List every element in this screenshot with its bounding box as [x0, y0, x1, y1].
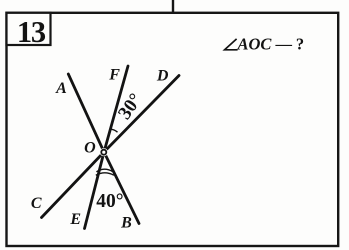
svg-text:40°: 40°: [96, 191, 123, 212]
angle symbol of question: [225, 39, 238, 50]
double arc of 40 degree angle EOB (lower): [96, 173, 114, 175]
svg-text:C: C: [31, 195, 42, 212]
vertex point O circle: [101, 150, 106, 155]
svg-text:13: 13: [17, 15, 46, 49]
ray OD: [104, 76, 179, 153]
svg-text:—: —: [274, 34, 292, 53]
svg-text:?: ?: [296, 34, 304, 53]
problem number box: [7, 13, 51, 45]
arc of 30 degree angle FOD: [110, 129, 117, 132]
ray OC: [42, 152, 105, 218]
svg-text:D: D: [156, 67, 169, 84]
double arc of 40 degree angle EOB (upper): [96, 169, 112, 172]
ray OF: [104, 66, 128, 152]
svg-text:B: B: [120, 215, 132, 232]
svg-text:O: O: [84, 139, 96, 156]
ray OA: [68, 74, 104, 152]
ray OE: [85, 152, 105, 229]
vertex point O white halo: [100, 148, 108, 156]
svg-text:A: A: [55, 80, 67, 97]
svg-text:AOC: AOC: [237, 34, 273, 53]
ray OB: [104, 152, 139, 224]
svg-text:E: E: [69, 211, 81, 228]
top column divider tick: [172, 0, 174, 13]
svg-text:F: F: [108, 66, 120, 83]
